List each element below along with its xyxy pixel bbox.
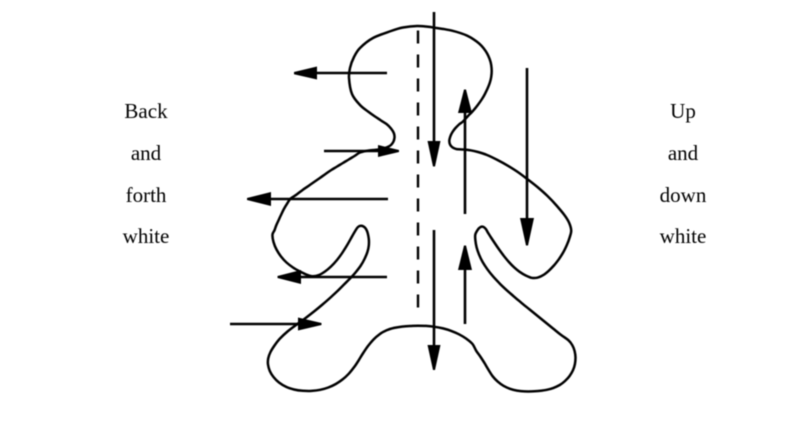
arrow 9: long vertical down arrow through right shoulder: [520, 68, 534, 246]
svg-text:white: white: [123, 224, 170, 248]
arrow 6: long vertical down arrow along centre line: [428, 12, 441, 167]
arrow 3: horizontal left-pointing arrow at chest: [247, 192, 388, 206]
svg-text:Back: Back: [124, 99, 168, 123]
figure outline (gingerbread-man silhouette): [268, 26, 576, 391]
arrow 8: vertical up arrow right of centre, lower: [458, 246, 472, 325]
arrow 1: horizontal left-pointing arrow through head: [294, 67, 387, 80]
right caption: "Up and down white": [660, 99, 707, 248]
arrow 5: horizontal right-pointing arrow at left hip: [230, 318, 322, 331]
svg-text:forth: forth: [126, 183, 167, 207]
arrow 4: horizontal left-pointing arrow at left arm: [278, 270, 388, 284]
svg-text:and: and: [668, 141, 699, 165]
svg-text:and: and: [131, 141, 162, 165]
arrow 10: vertical down arrow at bottom centre: [428, 230, 441, 370]
svg-text:Up: Up: [670, 99, 696, 123]
arrow 2: horizontal right-pointing arrow at left neck: [324, 145, 399, 157]
svg-text:white: white: [660, 224, 707, 248]
arrow 7: vertical up arrow right of centre, upper: [458, 90, 472, 215]
vertical dashed centre line: [417, 31, 419, 319]
left caption: "Back and forth white": [123, 99, 170, 248]
svg-text:down: down: [660, 183, 707, 207]
